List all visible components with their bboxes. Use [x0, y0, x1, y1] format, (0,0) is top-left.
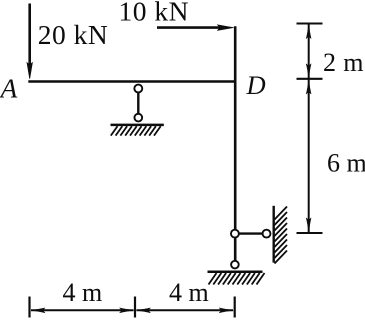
bottom ground line: [208, 270, 263, 273]
middle support ground line: [111, 124, 164, 127]
dimension tick top: [297, 22, 323, 24]
dim arrow up from beam tick: [306, 80, 311, 94]
force arrow 10 kN head: [218, 25, 234, 31]
middle support ground hatching: [111, 126, 161, 135]
bottom tick left: [28, 297, 30, 318]
svg-text:A: A: [0, 73, 18, 104]
bottom support pin on member: [231, 230, 239, 238]
dim arrow right to middle tick: [120, 308, 134, 313]
svg-text:4 m: 4 m: [63, 278, 103, 307]
bottom dimension line left span: [31, 309, 134, 311]
dimension tick at beam level: [297, 78, 323, 80]
svg-text:2 m: 2 m: [323, 48, 364, 77]
force arrow 10 kN line: [157, 26, 221, 29]
dim arrow up to top tick: [306, 25, 311, 39]
dimension right: vertical extension line: [308, 24, 310, 233]
dim arrow down to beam tick: [306, 64, 311, 78]
middle support upper pin: [134, 85, 142, 93]
dim arrow down to bottom tick: [306, 218, 311, 232]
svg-text:4 m: 4 m: [169, 278, 209, 307]
dim arrow left from middle tick: [136, 308, 150, 313]
bottom tick right: [234, 297, 236, 318]
wall hatching: [275, 207, 288, 264]
dim arrow left to left tick: [31, 308, 45, 313]
force arrow 20 kN line: [28, 4, 31, 67]
beam A-D: [28, 80, 236, 83]
bottom roller pin: [231, 261, 239, 269]
bottom dimension line right span: [137, 309, 234, 311]
bottom tick middle: [134, 297, 136, 318]
svg-text:D: D: [246, 70, 266, 100]
dimension tick bottom: [297, 232, 323, 234]
middle support lower pin: [134, 114, 142, 122]
bottom support horizontal link bar: [235, 232, 267, 234]
force arrow 20 kN head: [27, 63, 33, 79]
svg-text:10 kN: 10 kN: [119, 0, 190, 27]
bottom support pin at wall: [263, 230, 271, 238]
bottom ground hatching: [209, 273, 265, 285]
dim arrow right to right tick: [219, 308, 233, 313]
svg-text:6 m: 6 m: [327, 149, 365, 178]
middle support link bar: [137, 88, 139, 118]
column member D (vertical): [234, 26, 237, 261]
svg-text:20 kN: 20 kN: [38, 19, 109, 50]
wall line: [273, 206, 275, 263]
